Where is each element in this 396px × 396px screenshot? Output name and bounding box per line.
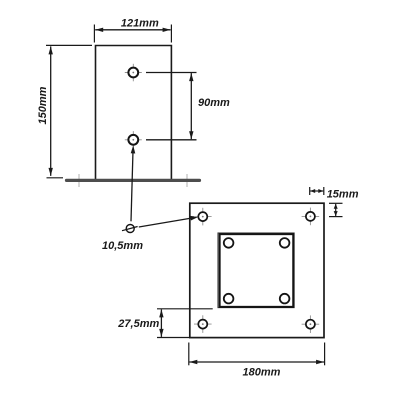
dimension 27,5mm: top extension line <box>157 308 213 310</box>
front view: hole H1 (upper) <box>125 64 142 82</box>
svg-text:150mm: 150mm <box>37 86 49 124</box>
dimension 180mm: right extension line <box>324 343 326 366</box>
dimension 15mm horizontal: line and arrows <box>310 189 323 193</box>
dimension 180mm: label <box>243 367 281 379</box>
front view: right plate hole centerline mark <box>186 174 188 187</box>
dimension 90mm: extension line from H2 <box>146 139 197 141</box>
dimension 15mm vertical: line and arrows <box>334 204 338 216</box>
dimension 15mm horizontal: ticks <box>310 187 324 195</box>
dimension 27,5mm: label <box>117 318 159 330</box>
dimension 180mm: left extension line <box>188 343 190 366</box>
svg-text:180mm: 180mm <box>243 367 281 379</box>
top view: plate hole TL <box>194 208 212 226</box>
label 10,5mm <box>102 240 143 252</box>
dimension 90mm: line and arrows <box>189 73 193 139</box>
top view: tube hole TL <box>224 238 234 248</box>
dimension 150mm: label (rotated) <box>37 86 49 124</box>
front view: post outline <box>96 46 172 180</box>
front view: hole H2 (lower) <box>125 131 142 149</box>
dimension 15mm: label <box>327 189 359 201</box>
svg-text:15mm: 15mm <box>327 189 359 201</box>
dimension 27,5mm: line and arrows <box>159 309 163 337</box>
svg-text:121mm: 121mm <box>121 18 159 30</box>
dimension 27,5mm: bottom extension line <box>157 337 190 339</box>
top view: tube hole BL <box>224 294 234 304</box>
top view: plate hole TR <box>302 208 320 226</box>
top view: plate outline <box>190 203 324 337</box>
svg-text:90mm: 90mm <box>198 97 230 109</box>
dimension 90mm: label <box>198 97 230 109</box>
leader arrow to top view hole <box>139 216 199 227</box>
top view: tube hole BR <box>280 294 290 304</box>
dimension 150mm: top extension line <box>46 44 92 46</box>
top view: tube hole TR <box>280 238 290 248</box>
top view: post tube outer wall <box>218 233 294 308</box>
dimension 15mm vertical: ticks <box>329 203 343 216</box>
leader arrow to hole H2 <box>131 145 136 221</box>
dimension 150mm: line and arrows <box>49 46 53 176</box>
svg-text:27,5mm: 27,5mm <box>117 318 159 330</box>
dimension 121mm: label <box>121 18 159 30</box>
leader: diameter symbol <box>122 225 138 233</box>
dimension 121mm: extension ticks <box>94 25 171 43</box>
top view: post tube inner wall (thick) <box>220 234 294 307</box>
front view: base plate (thick gray bar) <box>67 179 200 182</box>
dimension 150mm: bottom extension tick <box>47 177 64 179</box>
dimension 180mm: line and arrows <box>189 360 324 364</box>
top view: plate hole BL <box>194 315 212 333</box>
front view: left plate hole centerline mark <box>78 174 80 187</box>
top view: plate hole BR <box>302 315 320 333</box>
dimension 90mm: extension line from H1 <box>146 72 197 74</box>
dimension 121mm: line and arrows <box>95 28 170 32</box>
svg-text:10,5mm: 10,5mm <box>102 240 143 252</box>
